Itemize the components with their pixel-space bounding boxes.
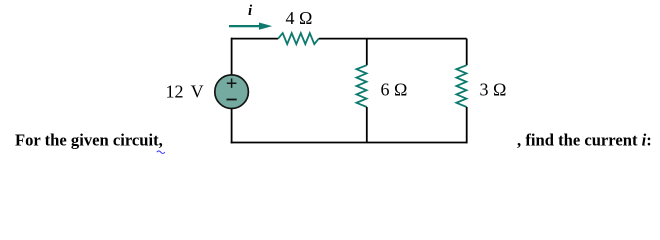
svg-text:3 Ω: 3 Ω <box>480 80 507 100</box>
wire middle branch lower <box>366 107 368 143</box>
wire top-left segment <box>231 38 278 40</box>
svg-text:12 V: 12 V <box>166 82 204 102</box>
wire bottom <box>231 142 467 144</box>
svg-text:For the given circuit,: For the given circuit, <box>15 131 163 150</box>
svg-text:4 Ω: 4 Ω <box>286 8 313 28</box>
resistor R2 6ohm <box>357 65 367 107</box>
wire top-right segment <box>319 38 467 40</box>
current arrow i <box>229 25 261 27</box>
voltage source V1 12V <box>215 75 249 109</box>
wire left vertical upper <box>231 38 233 75</box>
svg-text:, find the current i:: , find the current i: <box>517 131 652 150</box>
minus sign <box>227 99 237 101</box>
wire middle branch upper <box>366 39 368 66</box>
svg-text:i: i <box>248 3 253 19</box>
wire right branch lower <box>466 107 468 143</box>
svg-text:6 Ω: 6 Ω <box>381 80 408 100</box>
spellcheck squiggle <box>157 151 165 154</box>
resistor R3 3ohm <box>456 65 466 107</box>
plus sign <box>227 79 237 88</box>
wire right branch upper <box>466 39 468 66</box>
resistor R1 4ohm <box>278 33 319 44</box>
wire left vertical lower <box>231 109 233 144</box>
